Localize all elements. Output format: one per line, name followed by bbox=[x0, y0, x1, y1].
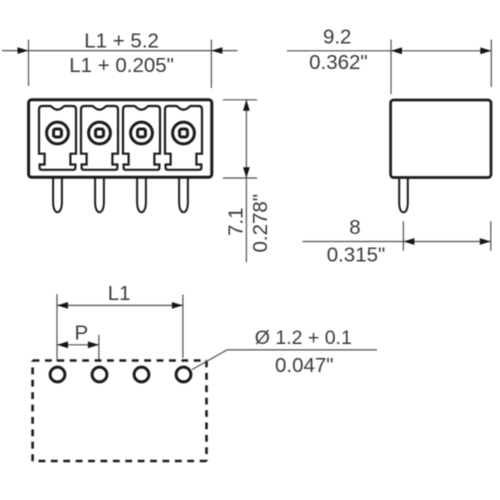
leader line for hole diameter bbox=[192, 350, 377, 370]
arrow left of 9.2 bbox=[391, 47, 402, 54]
connector body side view bbox=[391, 100, 491, 178]
connector body front view bbox=[29, 100, 212, 177]
dimension 7.1 lines bbox=[223, 100, 257, 262]
cell 2 contact square bbox=[96, 129, 104, 137]
svg-text:8: 8 bbox=[349, 216, 360, 239]
arrow down of 7.1 bbox=[243, 167, 250, 178]
svg-text:0.278": 0.278" bbox=[249, 194, 272, 253]
svg-text:9.2: 9.2 bbox=[323, 26, 352, 49]
svg-text:L1 + 0.205": L1 + 0.205" bbox=[69, 54, 174, 77]
arrow right of 8 bbox=[480, 238, 491, 245]
pin 1 front bbox=[53, 177, 62, 213]
cell 3 contact circle bbox=[131, 122, 153, 144]
svg-text:7.1: 7.1 bbox=[224, 208, 247, 237]
arrow left of L1 bbox=[57, 302, 68, 309]
dimension 9.2 lines bbox=[287, 40, 492, 95]
cell 1 bbox=[39, 106, 76, 170]
svg-text:0.362": 0.362" bbox=[309, 51, 368, 74]
arrow up of 7.1 bbox=[243, 100, 250, 111]
svg-text:L1: L1 bbox=[108, 282, 131, 305]
svg-text:L1 + 5.2: L1 + 5.2 bbox=[84, 29, 159, 52]
cell 4 contact circle bbox=[173, 122, 195, 144]
dimension P lines bbox=[57, 335, 99, 360]
arrow right of P bbox=[88, 341, 99, 348]
arrow right of L1+5.2 bbox=[211, 47, 222, 54]
dimension L1 lines (footprint) bbox=[57, 294, 183, 362]
cell 3 contact square bbox=[138, 129, 146, 137]
svg-text:Ø 1.2 + 0.1: Ø 1.2 + 0.1 bbox=[255, 327, 352, 349]
pin side view bbox=[399, 177, 408, 212]
cell 2 bbox=[81, 106, 118, 170]
pin 4 front bbox=[179, 177, 188, 213]
svg-text:0.047": 0.047" bbox=[275, 354, 334, 377]
arrow right of L1 bbox=[172, 302, 183, 309]
cell 2 contact circle bbox=[89, 122, 111, 144]
hole 2 bbox=[92, 367, 107, 382]
cell 4 bbox=[165, 106, 202, 170]
cell 1 contact circle bbox=[47, 122, 69, 144]
hole 4 bbox=[176, 367, 191, 382]
hole 1 bbox=[50, 367, 65, 382]
cell 1 contact square bbox=[54, 129, 62, 137]
svg-text:P: P bbox=[75, 321, 89, 344]
arrow left of P bbox=[57, 341, 68, 348]
pin 3 front bbox=[137, 177, 146, 213]
arrow right of 9.2 bbox=[480, 47, 491, 54]
cell 4 contact square bbox=[180, 129, 188, 137]
dimension L1+5.2 line bbox=[2, 40, 238, 89]
arrow left of 8 bbox=[403, 238, 414, 245]
hole 3 bbox=[134, 367, 149, 382]
arrow left of L1+5.2 bbox=[18, 47, 29, 54]
pin 2 front bbox=[95, 177, 104, 213]
dimension 8 lines bbox=[303, 221, 492, 250]
svg-text:0.315": 0.315" bbox=[327, 243, 386, 266]
footprint dashed outline bbox=[33, 361, 207, 462]
cell 3 bbox=[123, 106, 160, 170]
